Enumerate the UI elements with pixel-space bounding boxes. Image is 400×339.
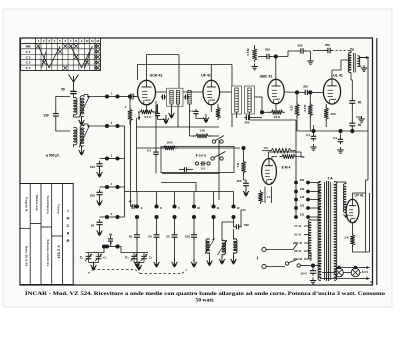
label UCH 42: [293, 257, 303, 261]
bank contact dot 1a: [135, 204, 139, 208]
contact number 4: [111, 183, 113, 186]
wire row2 to bus: [118, 125, 125, 127]
svg-text:250: 250: [237, 179, 242, 183]
output transformer Tu secondary: [358, 56, 360, 67]
wire tap 125: [310, 207, 321, 209]
junction lamp a: [337, 266, 340, 269]
label em4 pins: [267, 195, 271, 199]
ground Lb: [219, 256, 225, 265]
switch contact dot row 5 left: [105, 215, 109, 219]
resistor 10K: [161, 146, 178, 150]
svg-text:RM: RM: [26, 44, 31, 48]
ground bank col 4: [191, 259, 197, 268]
title block texts: [25, 195, 70, 266]
label Tu: [350, 48, 354, 52]
wire grid res top: [309, 92, 311, 104]
svg-text:I: I: [67, 208, 68, 213]
wire rail y173: [162, 173, 219, 175]
IF T1 can: [167, 88, 184, 106]
value 110: [300, 213, 305, 217]
svg-text:160: 160: [300, 187, 305, 191]
label a 500 pf: [46, 154, 60, 158]
value 55: [166, 235, 170, 239]
wire UCH42 anode up: [146, 55, 148, 81]
svg-text:INCAR - Mod. VZ 524. Ricevitor: INCAR - Mod. VZ 524. Ricevitore a onde m…: [25, 291, 385, 297]
wire L1 sec top: [83, 95, 85, 97]
wire cap to grid line: [271, 56, 289, 58]
svg-text:Foglio N.: Foglio N.: [25, 197, 29, 213]
wire bank col 1 upper: [136, 192, 138, 205]
wire row6 right down: [118, 247, 122, 253]
wire a: [296, 125, 298, 131]
wire UBC41 anode out: [284, 91, 303, 93]
svg-text:510: 510: [185, 235, 190, 239]
wire IF1 sec bottom: [177, 104, 179, 127]
wire row cap 4: [100, 186, 108, 188]
wire switch row 6 gap: [109, 246, 116, 248]
wire bank col 3 lower: [174, 219, 176, 233]
svg-text:510: 510: [90, 165, 95, 169]
trimmer capacitor: [141, 253, 148, 263]
wire UY41 anode: [352, 193, 354, 199]
svg-text:0,5 M: 0,5 M: [246, 48, 250, 56]
switch contact dot row 1 right: [115, 94, 119, 98]
svg-text:12: 12: [96, 39, 99, 43]
selector dot 220: [294, 181, 298, 185]
gang label: [80, 256, 84, 260]
svg-text:12: 12: [236, 206, 240, 210]
value 300: [144, 115, 151, 119]
svg-text:6,3 V: 6,3 V: [362, 270, 368, 274]
wire top lamp rail: [336, 267, 361, 269]
svg-text:1 0: 1 0: [267, 195, 271, 199]
capacitor 250 coupling 2: [303, 90, 310, 95]
wire 150 down: [325, 119, 327, 127]
wire bank col 4 lower: [193, 219, 195, 233]
tuning arrow L2: [79, 126, 90, 148]
trimmer capacitor: [95, 253, 102, 263]
wire lamp rail c: [360, 272, 361, 274]
table X marks: [36, 44, 99, 69]
resistor 2M EM4: [241, 160, 245, 175]
oscillator coil Lb: [222, 240, 226, 254]
selector dot 110: [294, 215, 298, 219]
svg-text:UY 41: UY 41: [354, 194, 363, 198]
svg-text:250: 250: [325, 43, 330, 47]
wire to gnd2: [158, 118, 167, 120]
wire osc col: [213, 219, 215, 239]
wire B+ drop: [351, 80, 352, 99]
value 500 osc: [244, 223, 249, 227]
wire heater top link: [311, 219, 320, 221]
bank contact dot 2a: [154, 204, 158, 208]
wire L1 to ground: [74, 116, 80, 118]
wire bank col 4 gnd lead: [193, 240, 195, 262]
svg-text:5 0: 5 0: [201, 167, 205, 171]
wire UL41 anode up: [331, 70, 333, 79]
svg-text:C 1: C 1: [26, 50, 31, 54]
coupling coil winding: [188, 91, 191, 105]
svg-text:UY 41: UY 41: [294, 224, 302, 228]
switch contact dot row 2 left: [105, 124, 109, 128]
tap dot 110: [306, 215, 310, 219]
wire osc link: [222, 222, 234, 241]
wire row cap 3: [100, 158, 108, 160]
svg-text:500: 500: [244, 223, 249, 227]
svg-text:220: 220: [300, 178, 305, 182]
tube UF41: [203, 80, 220, 105]
ground bank col 3: [172, 259, 178, 268]
wire heater tap UCH 42: [304, 258, 310, 260]
tube EM4 magic eye: [262, 159, 277, 185]
wire row cap 5: [100, 216, 108, 218]
svg-text:0,1: 0,1: [306, 133, 310, 137]
wire heater tap UY 41: [304, 225, 310, 227]
IF T2 can: [232, 86, 242, 114]
contact number 6: [111, 243, 113, 246]
label UL41: [333, 74, 343, 78]
wire em4 b: [294, 150, 296, 152]
wire IF2 pri bottom: [236, 112, 238, 118]
IF transformer T1 primary winding: [170, 91, 173, 105]
wire em4 grid top: [243, 148, 245, 162]
wire cap down: [157, 118, 159, 120]
ground cap psu: [310, 278, 316, 284]
switch contact dot row 4 right: [115, 185, 119, 189]
wire mains a: [266, 244, 298, 250]
svg-text:50: 50: [148, 235, 152, 239]
wire bank col 1 lower: [136, 219, 138, 233]
tuning gang dashed link: [88, 270, 187, 274]
value 0.25M: [290, 105, 294, 111]
svg-text:150: 150: [330, 112, 335, 116]
wire cap40b down: [351, 128, 353, 134]
wire b: [309, 125, 311, 131]
title block frame: [20, 184, 73, 285]
oscillator coil La: [206, 239, 210, 253]
wire IF2 sec bottom: [249, 112, 251, 120]
wire cap40 stem: [110, 244, 112, 247]
wire to cap250: [313, 50, 327, 52]
tube UBC41: [268, 79, 284, 104]
wire Lc top: [233, 229, 235, 240]
capacitor 130pF: [53, 111, 59, 118]
label 10H: [300, 272, 306, 276]
wire gnd stem: [310, 51, 312, 58]
wire vertical x130 long: [130, 121, 132, 201]
value 250 avc: [245, 121, 250, 125]
value 2M em4: [236, 162, 240, 167]
svg-text:C₃: C₃: [125, 256, 129, 260]
wire UY41 top to rail: [353, 192, 366, 194]
svg-text:250: 250: [303, 85, 308, 89]
wire cap01 down: [195, 116, 197, 119]
UY41 filament winding: [343, 184, 346, 213]
ground Tu: [361, 65, 367, 71]
resistor EM4 grid a: [268, 149, 294, 153]
wire row6 down: [103, 247, 105, 253]
value 45: [129, 200, 132, 204]
tube UY41 rectifier: [346, 199, 359, 223]
wire row6: [104, 246, 107, 248]
wire rail1 right drop: [178, 55, 180, 88]
tap dot 140: [306, 198, 310, 202]
junction anode: [295, 90, 299, 94]
wire res top stub: [254, 45, 256, 49]
wire 01a top: [313, 125, 315, 134]
svg-text:500: 500: [297, 44, 302, 48]
value 0.5M b: [303, 104, 307, 111]
value 1M em4: [301, 155, 305, 159]
wire bank col 3 gnd lead: [174, 240, 176, 262]
wire 2M down: [243, 173, 245, 181]
tap dot 125: [306, 206, 310, 210]
junction grid UL41: [308, 90, 312, 94]
wire row to bus: [118, 186, 125, 188]
capacitor 40uF electrolytic a: [349, 98, 355, 106]
selector dot 160: [294, 190, 298, 194]
wire vertical x136 long: [136, 118, 138, 192]
arrow down cathode: [138, 112, 141, 120]
wire cap250 to Tu: [348, 50, 351, 52]
svg-text:UCH 42: UCH 42: [150, 74, 163, 78]
wire Tu pri bottom: [350, 73, 352, 81]
wire UBC41 cathode: [275, 104, 277, 110]
value 01b: [333, 136, 337, 140]
wire em4 to B: [269, 151, 302, 153]
wire spk return: [360, 58, 368, 61]
capacitor 250 grid UL41: [325, 48, 332, 54]
arrow heater 6.3V b: [361, 277, 370, 280]
ground EM4 cap: [243, 188, 249, 197]
resistor 0.5M: [252, 47, 256, 62]
mains terminal b: [262, 264, 266, 268]
wire L2 gnd stem: [81, 147, 83, 150]
switch contact dot row 5 right: [115, 215, 119, 219]
ground UF41 cathode: [203, 114, 209, 123]
capacitor 500 decoupling: [298, 48, 305, 54]
wire em4 top: [268, 152, 270, 159]
wire 1M right: [208, 135, 219, 137]
wire em4 a: [262, 150, 268, 152]
svg-text:45: 45: [129, 200, 132, 204]
IF T2 can b: [245, 86, 255, 114]
svg-text:125: 125: [300, 204, 305, 208]
w: [188, 169, 193, 171]
gang label: [125, 256, 129, 260]
wire gang gnd stem: [138, 263, 140, 265]
wire rail2 to UF41: [210, 65, 212, 81]
label UY41: [354, 194, 363, 198]
wire switch row 5 gap: [109, 216, 116, 218]
ground bank col 1: [134, 259, 140, 268]
coil L1 primary: [74, 97, 77, 114]
wire res down a: [296, 116, 298, 126]
capacitor 250 AVC: [244, 115, 251, 120]
wire L1 bottom: [73, 114, 75, 117]
contact number 3: [111, 155, 113, 158]
label mains ac: [256, 256, 262, 260]
output transformer Tu primary: [348, 53, 351, 73]
value 250 top: [265, 48, 270, 52]
bank contact dot 1b: [135, 215, 139, 219]
switch contact dot row 1 left: [105, 94, 109, 98]
wire Tu top: [350, 51, 352, 53]
bank contact dot 4a: [192, 204, 196, 208]
value 05 em4: [264, 146, 268, 150]
resistor 2M grid leak: [128, 108, 132, 123]
value 510: [185, 235, 190, 239]
wire gang gnd stem: [93, 263, 95, 265]
wire tap 110: [310, 216, 321, 218]
wire switch row 1 gap: [109, 96, 116, 98]
wire to C130: [56, 97, 70, 113]
bank contact dot 2b: [154, 215, 158, 219]
resistor 150 cathode UL41: [324, 106, 328, 121]
resistor 1M EM4 b: [258, 190, 262, 204]
junction diode: [260, 110, 264, 114]
svg-text:C 4: C 4: [26, 66, 31, 70]
value 125: [300, 204, 305, 208]
ground 01a: [310, 144, 316, 150]
contact number: [178, 206, 180, 210]
value 50 det: [147, 149, 152, 153]
switch contact dot row 4 left: [105, 185, 109, 189]
ground screen cap: [163, 115, 169, 124]
label UL 41: [294, 233, 302, 237]
Fono selector box: [161, 147, 234, 173]
svg-text:UBC 41: UBC 41: [260, 75, 273, 79]
resistor 0.25M anode load: [295, 103, 299, 118]
bank contact dot 5a: [211, 204, 215, 208]
ground 0.5M: [251, 64, 257, 70]
w join: [366, 179, 369, 181]
wire res down b: [309, 116, 311, 126]
capacitor 45 padder: [131, 204, 136, 209]
svg-text:40: 40: [109, 233, 113, 237]
svg-text:Data 25.9.54: Data 25.9.54: [25, 246, 29, 266]
value 220: [300, 178, 305, 182]
ground 01b: [337, 147, 343, 153]
svg-text:250: 250: [265, 48, 270, 52]
value 500: [297, 44, 302, 48]
wire vertical x219: [218, 140, 220, 200]
svg-text:~: ~: [256, 256, 262, 260]
capacitor 20 bank col 1: [134, 232, 140, 239]
wire x130 to cap45: [130, 200, 132, 207]
wire osc col c: [233, 219, 235, 222]
bank contact dot 6a: [231, 204, 235, 208]
wire gang bottom: [89, 262, 99, 264]
junction coupling: [274, 54, 278, 58]
wire band bus vertical: [124, 126, 126, 217]
value 50: [61, 88, 65, 92]
switch mains lever: [289, 260, 298, 263]
label UY 41: [294, 224, 302, 228]
padder value: [90, 165, 95, 169]
wire Lb down: [221, 255, 223, 259]
wire gang top: [121, 252, 149, 254]
junction grid: [128, 94, 132, 98]
value 10K: [166, 141, 173, 145]
label UBC 41: [293, 241, 303, 245]
wire heater tap UL 41: [304, 234, 310, 236]
variable capacitor C&#8321;: [85, 253, 92, 263]
wire 500 to gnd: [305, 50, 311, 52]
junction row6 a: [102, 244, 106, 248]
resistor 0.5M grid UL41: [308, 103, 312, 118]
value 250 mid: [303, 85, 308, 89]
wire rail2 left drop: [137, 65, 139, 81]
svg-text:C 2: C 2: [26, 55, 31, 59]
capacitor grid coupling: [128, 94, 135, 100]
value 40b: [358, 123, 362, 127]
wire Tu sec bottom: [358, 65, 362, 67]
wire lamp rail b: [343, 272, 351, 274]
wire avc cap: [250, 117, 262, 119]
heater chain winding: [308, 220, 311, 259]
wire to transformer foot: [313, 265, 320, 267]
wire row1 to C grid: [118, 96, 130, 98]
svg-text:0,25: 0,25: [290, 105, 294, 111]
svg-text:Materiale: Materiale: [35, 195, 39, 211]
junction 01a: [311, 129, 315, 133]
wire grid leak bottom: [129, 121, 131, 126]
label 6.3V: [362, 270, 368, 274]
junction em4: [241, 146, 245, 150]
junction lamp b: [354, 266, 357, 269]
wire bank col 4 upper: [193, 192, 195, 205]
wire tap 140: [310, 199, 321, 201]
capacitor 0.1 a: [311, 134, 317, 141]
wire gang bottom: [134, 262, 144, 264]
wire 1K down: [353, 245, 370, 252]
arrow heater 6.3V a: [361, 266, 370, 269]
svg-text:E M 4: E M 4: [282, 166, 291, 170]
wire UF41 anode to IF2: [220, 91, 232, 93]
oscillator coil Lc: [234, 239, 238, 253]
svg-text:C: C: [67, 223, 70, 228]
wire top rail 1: [147, 54, 180, 56]
wire rail3 a: [288, 50, 300, 52]
wire row5 to bus: [118, 216, 125, 218]
wire rail det left: [137, 147, 167, 149]
svg-text:T A: T A: [327, 177, 333, 181]
wire L1 to switch row 1: [84, 95, 107, 97]
wire 01b top: [340, 134, 342, 138]
value 40: [109, 233, 113, 237]
tap dot 160: [306, 190, 310, 194]
svg-text:C 3: C 3: [26, 61, 31, 65]
wire em4 heater a: [264, 187, 266, 203]
wire em4 d: [298, 152, 301, 157]
contact number: [160, 206, 162, 210]
value 1K: [344, 236, 349, 240]
svg-text:V Z 526: V Z 526: [57, 245, 61, 258]
wire to UCH42 grid: [135, 96, 139, 98]
svg-text:50: 50: [61, 88, 65, 92]
selector dot 125: [294, 206, 298, 210]
value 130: [43, 114, 49, 118]
svg-text:3 0 0: 3 0 0: [144, 115, 151, 119]
svg-text:UL 41: UL 41: [333, 74, 343, 78]
value 2M: [125, 105, 127, 109]
wire anode to Tu: [332, 60, 349, 70]
wire screen: [217, 104, 219, 108]
svg-text:10 H: 10 H: [300, 272, 306, 276]
svg-text:10: 10: [197, 206, 201, 210]
power transformer core: [327, 181, 329, 281]
